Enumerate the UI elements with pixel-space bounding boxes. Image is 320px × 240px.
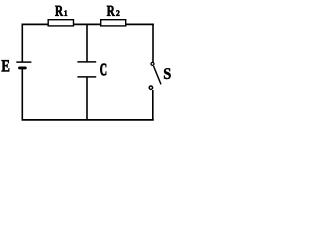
resistor R1: [48, 20, 73, 26]
wire middle upper (top node at x=87 down to capacitor): [86, 24, 88, 62]
resistor R2: [101, 20, 126, 26]
battery E: [16, 62, 31, 68]
label R2: [107, 6, 120, 16]
wire right lower (switch bottom contact to bottom corner): [152, 90, 154, 120]
wire R1 to R2 (through node at x=87): [73, 23, 101, 25]
wire top-left (battery top node to R1): [22, 23, 49, 25]
wire middle lower (capacitor to bottom wire): [86, 77, 88, 120]
label E: [2, 60, 10, 71]
wire bottom: [22, 119, 154, 121]
wire left upper (top corner down to battery): [21, 24, 23, 62]
label R1: [55, 6, 67, 16]
wire left lower (battery to bottom corner): [21, 69, 23, 120]
label C: [100, 64, 106, 76]
switch S: [149, 62, 161, 89]
capacitor C: [77, 62, 96, 77]
label S: [164, 68, 171, 79]
wire right upper (top corner to switch top contact): [152, 24, 154, 63]
wire top-right (R2 to switch branch): [125, 23, 154, 25]
